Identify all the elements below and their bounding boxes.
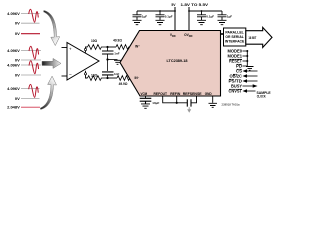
bottom pin labels	[141, 92, 213, 96]
wire RESET	[243, 60, 248, 62]
gray curved arrow top (down)	[44, 10, 60, 45]
svg-text:0V: 0V	[15, 72, 20, 77]
ground C6	[218, 20, 227, 24]
flat 2.048V pink line	[21, 106, 40, 108]
waveform group 2: differential pair	[7, 48, 20, 78]
svg-text:REFOUT: REFOUT	[154, 92, 168, 96]
waveform group 1: 4.096V sine over 0V, plus flat 0V line	[7, 11, 20, 36]
wire supply top left	[137, 10, 175, 12]
gray pointer arrow at C8	[188, 107, 190, 109]
wire: top output jog	[86, 47, 88, 53]
ground (logic pins)	[246, 67, 254, 71]
wire GND pin	[212, 96, 214, 103]
svg-text:4.096V: 4.096V	[7, 62, 20, 67]
svg-text:0.1μF: 0.1μF	[206, 15, 214, 19]
svg-text:0.1μF: 0.1μF	[165, 15, 173, 19]
gray straight block arrow	[42, 58, 61, 68]
ground C3	[133, 20, 142, 24]
svg-text:0V: 0V	[15, 21, 20, 26]
svg-text:CLOCK: CLOCK	[257, 95, 266, 99]
wire CS with input arrow	[247, 70, 258, 72]
svg-text:10μF: 10μF	[152, 101, 159, 105]
wire 5V rail	[174, 7, 176, 31]
capacitor C4 0.1uF	[156, 11, 165, 20]
overbars on active-low pin names	[229, 59, 242, 89]
flat 0V red line	[21, 33, 40, 35]
right side pin labels	[228, 49, 243, 94]
svg-text:+: +	[69, 46, 72, 51]
VDDLBYP decoupling: wire	[145, 96, 147, 98]
ground C4	[156, 20, 165, 24]
wire	[108, 77, 118, 79]
svg-text:OVDD: OVDD	[184, 33, 192, 38]
sine waveform 2a	[29, 46, 39, 59]
interface box	[224, 28, 246, 46]
svg-text:1μF: 1μF	[227, 15, 233, 19]
ground C5	[197, 20, 206, 24]
axis line 0V level	[21, 22, 40, 24]
output node circle bottom	[84, 73, 86, 75]
capacitor C1 1nF (top)	[107, 47, 109, 51]
svg-text:REFSENSE: REFSENSE	[183, 92, 202, 96]
capacitor C5 0.1uF	[197, 11, 206, 20]
wire to ground	[108, 59, 118, 61]
capacitor C6 1uF	[218, 11, 227, 20]
svg-text:10Ω: 10Ω	[91, 73, 98, 77]
node REFIN join	[176, 102, 178, 104]
svg-text:49.9Ω: 49.9Ω	[119, 82, 128, 86]
svg-text:VCM: VCM	[141, 92, 148, 96]
ground (mid caps)	[114, 60, 121, 64]
resistor R2 49.9ohm (top)	[116, 45, 131, 50]
node C (mid caps)	[106, 58, 108, 60]
svg-text:0V: 0V	[15, 31, 20, 36]
resistor R3 10ohm (bottom)	[88, 76, 108, 81]
wire: + input stub	[62, 47, 68, 49]
svg-text:4.096V: 4.096V	[7, 48, 20, 53]
sine waveform 2b	[29, 61, 39, 74]
ground C7	[141, 104, 150, 108]
wire supply top right	[189, 10, 222, 12]
wire	[108, 46, 117, 48]
svg-text:LTC2389-18: LTC2389-18	[167, 59, 188, 63]
sine waveform 1	[29, 9, 39, 22]
sine waveform 3	[29, 84, 39, 97]
capacitor C3 1uF	[133, 11, 142, 20]
resistor R1 10ohm (top)	[88, 45, 108, 50]
waveform group 3: single-ended + 2.048V common mode	[7, 86, 20, 110]
resistor R4 49.9ohm (bottom)	[117, 76, 132, 81]
svg-text:−: −	[69, 72, 72, 78]
capacitor C2 1nF (bottom)	[107, 75, 109, 78]
svg-text:REFIN: REFIN	[170, 92, 181, 96]
gray curved arrow bottom (up)	[40, 76, 56, 109]
svg-text:1.8V TO 5.5V: 1.8V TO 5.5V	[181, 3, 209, 7]
svg-text:1nF: 1nF	[114, 72, 120, 76]
svg-text:0V: 0V	[15, 96, 20, 101]
svg-text:10Ω: 10Ω	[91, 39, 98, 43]
18-bit block arrow	[246, 27, 272, 47]
svg-text:4.096V: 4.096V	[7, 11, 20, 16]
ADC U2 LTC2389-18 body	[120, 31, 221, 97]
op-amp U1 (fully differential driver)	[67, 43, 99, 81]
svg-text:49.9Ω: 49.9Ω	[113, 38, 122, 42]
wire CNVST with input arrow	[247, 90, 256, 92]
wire: bottom output jog	[86, 71, 88, 78]
wire REFOUT down	[163, 96, 188, 103]
svg-text:VDD: VDD	[170, 33, 176, 38]
wire MODE0	[243, 50, 248, 52]
ground bus vertical	[246, 51, 248, 66]
svg-text:1μF: 1μF	[142, 15, 148, 19]
ground GND pin	[209, 103, 218, 107]
svg-text:4.096V: 4.096V	[7, 86, 20, 91]
bus wire to interface box	[221, 33, 224, 35]
output node circle top	[84, 48, 86, 50]
svg-text:INTERFACE: INTERFACE	[225, 39, 245, 44]
wire SER/PAR with input arrow	[247, 80, 258, 82]
svg-text:5V: 5V	[171, 3, 176, 7]
wire OB/2C with input arrow	[247, 75, 258, 77]
svg-text:2.048V: 2.048V	[7, 105, 20, 110]
wire MODE1	[243, 55, 248, 57]
node dot bottom	[106, 77, 108, 79]
wire BUSY with output arrow	[243, 85, 254, 87]
axis line 4.096V level	[21, 13, 40, 15]
wire OVDD rail	[188, 7, 190, 31]
capacitor C8 47uF (series plates)	[187, 99, 191, 106]
wire to REFSENSE	[191, 96, 197, 103]
svg-text:18 BIT: 18 BIT	[248, 36, 257, 40]
wire REFIN down	[176, 96, 178, 103]
wire PD	[243, 65, 248, 67]
svg-text:1nF: 1nF	[114, 51, 120, 55]
svg-text:238918 TA01a: 238918 TA01a	[222, 104, 241, 107]
svg-text:GND: GND	[205, 92, 213, 96]
capacitor C7 10uF	[140, 98, 152, 103]
wire: - input stub	[62, 75, 68, 77]
node dot top	[106, 46, 108, 48]
